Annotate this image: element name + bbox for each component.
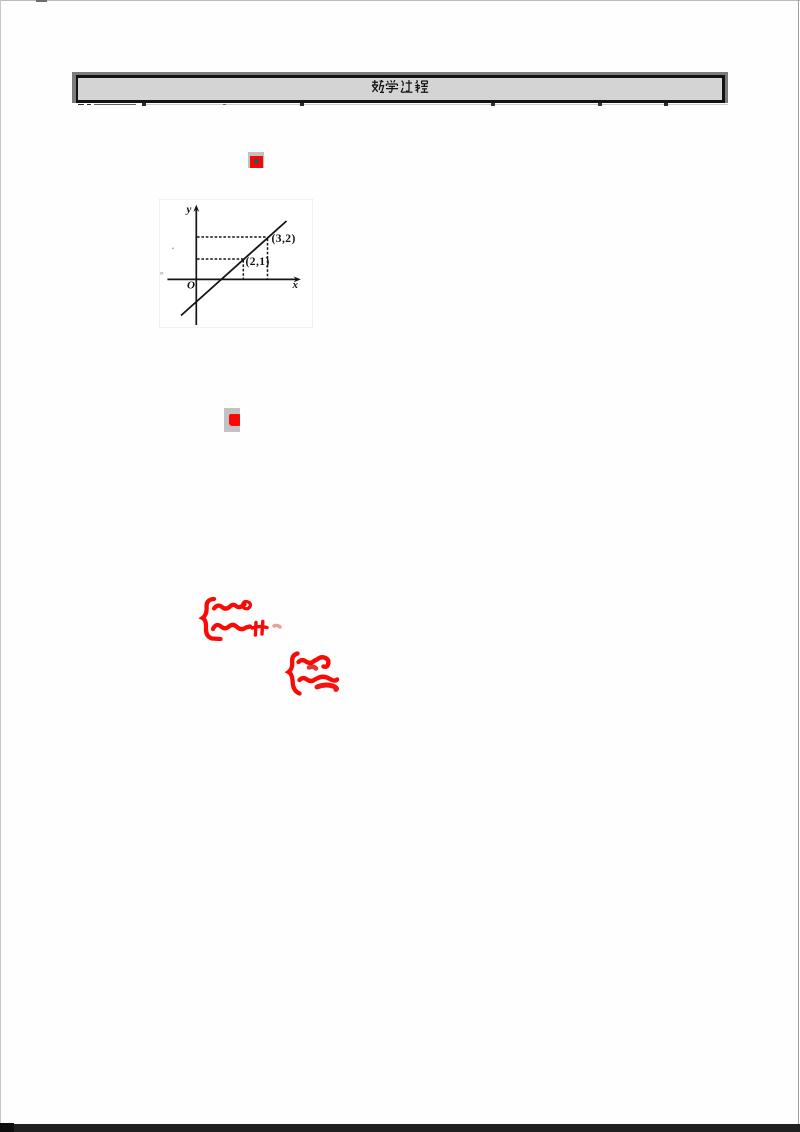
tick marks under header bar [78, 104, 84, 106]
bottom right marks [252, 622, 267, 636]
svg-text:(3,2): (3,2) [272, 233, 296, 245]
top squiggle [298, 657, 328, 666]
faint red dot right [274, 625, 280, 627]
y axis arrowhead [193, 205, 199, 212]
brace stroke [288, 654, 299, 694]
y axis [195, 207, 197, 325]
dashed h to (3,2) [197, 236, 268, 238]
bottom squiggle [299, 677, 337, 681]
char 过 [401, 80, 412, 92]
svg-text:y: y [185, 204, 192, 216]
gray patch behind red square 1 [248, 152, 264, 168]
dashed v from (3,2) [267, 239, 269, 279]
dashed h to (2,1) [197, 258, 243, 260]
red square 1 dark center [254, 159, 259, 164]
top squiggle loop [243, 602, 251, 609]
bottom strip darker left blob [0, 1123, 14, 1132]
header title strokes (教学过程) [371, 79, 429, 94]
brace stroke [203, 599, 221, 639]
page top edge line [0, 0, 800, 1]
graph figure [159, 199, 313, 328]
svg-text:(2,1): (2,1) [246, 256, 270, 268]
top edge nick mark [36, 0, 47, 2]
bottom blob [317, 685, 336, 690]
header bar 教学过程 [72, 72, 728, 104]
diagonal line [181, 221, 287, 316]
char 程 [415, 80, 428, 92]
bottom squiggle [213, 625, 250, 629]
page right edge line [798, 0, 800, 1125]
dashed v from (2,1) [242, 260, 244, 279]
red square 1 [250, 156, 263, 168]
faint specks [172, 248, 174, 250]
x axis arrowhead [294, 276, 301, 282]
svg-text:x: x [292, 279, 299, 291]
char 学 [386, 80, 398, 92]
mid blob [309, 667, 316, 669]
page bottom dark strip [0, 1124, 800, 1132]
page left edge line [0, 0, 1, 1125]
svg-text:O: O [187, 280, 195, 292]
gray patch behind red square 2 [224, 408, 240, 432]
top squiggle [214, 605, 245, 609]
red square 2 [229, 414, 241, 426]
x axis [167, 278, 298, 280]
red scribble group B [285, 649, 343, 697]
char 教 [372, 80, 384, 92]
red scribble group A [196, 590, 286, 645]
